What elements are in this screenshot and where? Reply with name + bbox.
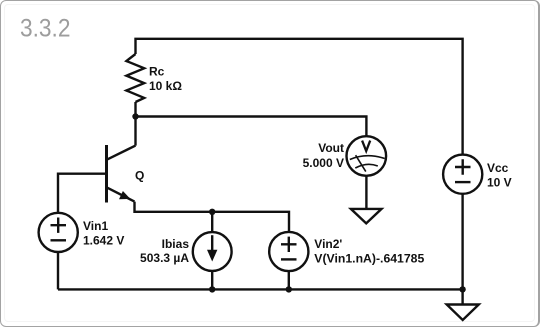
ground (main) (447, 305, 479, 321)
svg-text:V(Vin1.nA)-.641785: V(Vin1.nA)-.641785 (314, 252, 424, 266)
node: emitter junction (209, 209, 215, 215)
svg-text:503.3 µA: 503.3 µA (140, 251, 189, 265)
transistor Q1 (107, 145, 136, 203)
voltmeter Vout (347, 136, 387, 176)
svg-text:Ibias: Ibias (162, 237, 190, 251)
node: Ibias ground junction (209, 286, 215, 292)
wire: top rail from Rc top to Vcc branch (136, 39, 463, 155)
svg-text:Vout: Vout (318, 141, 344, 155)
wire: collector node to voltmeter (136, 117, 367, 137)
wire: Ibias bottom to ground rail (211, 271, 213, 290)
resistor Rc (126, 54, 144, 102)
wire: junction down to Ibias (211, 212, 213, 233)
svg-text:3.3.2: 3.3.2 (20, 15, 71, 43)
svg-text:5.000 V: 5.000 V (303, 156, 344, 170)
wire: base to Vin1 (58, 174, 107, 213)
voltage source Vcc (443, 155, 482, 194)
collector diagonal (107, 146, 136, 160)
ground (voltmeter) (351, 209, 382, 224)
svg-text:Rc: Rc (149, 65, 165, 79)
wire: voltmeter to ground (365, 176, 367, 209)
svg-text:Vcc: Vcc (487, 161, 509, 175)
wire: junction to main ground (461, 289, 463, 304)
current source Ibias (193, 232, 232, 271)
base bar (105, 145, 108, 203)
svg-text:10 kΩ: 10 kΩ (149, 79, 182, 93)
wire: Vin1 bottom to ground rail (57, 252, 59, 289)
voltage source Vin2' (269, 232, 308, 271)
svg-text:Vin1: Vin1 (83, 219, 108, 233)
svg-text:Vin2': Vin2' (314, 237, 342, 251)
wire: bottom ground rail (58, 288, 463, 290)
svg-text:10 V: 10 V (487, 176, 512, 190)
node: Vin2' ground junction (286, 286, 292, 292)
wire: Vcc bottom to ground rail (461, 194, 463, 290)
svg-text:Q: Q (135, 169, 144, 183)
node: collector junction (Rc bottom) (132, 113, 138, 119)
wire: emitter run to Ibias/Vin2' (135, 202, 290, 232)
svg-text:1.642 V: 1.642 V (83, 234, 124, 248)
wire: collector vertical into transistor (134, 117, 136, 146)
node: Vcc ground junction (459, 286, 465, 292)
wire: Vin2' bottom to ground rail (288, 271, 290, 289)
emitter diagonal (107, 187, 135, 201)
voltage source Vin1 (39, 213, 78, 252)
emitter arrowhead (119, 191, 130, 199)
